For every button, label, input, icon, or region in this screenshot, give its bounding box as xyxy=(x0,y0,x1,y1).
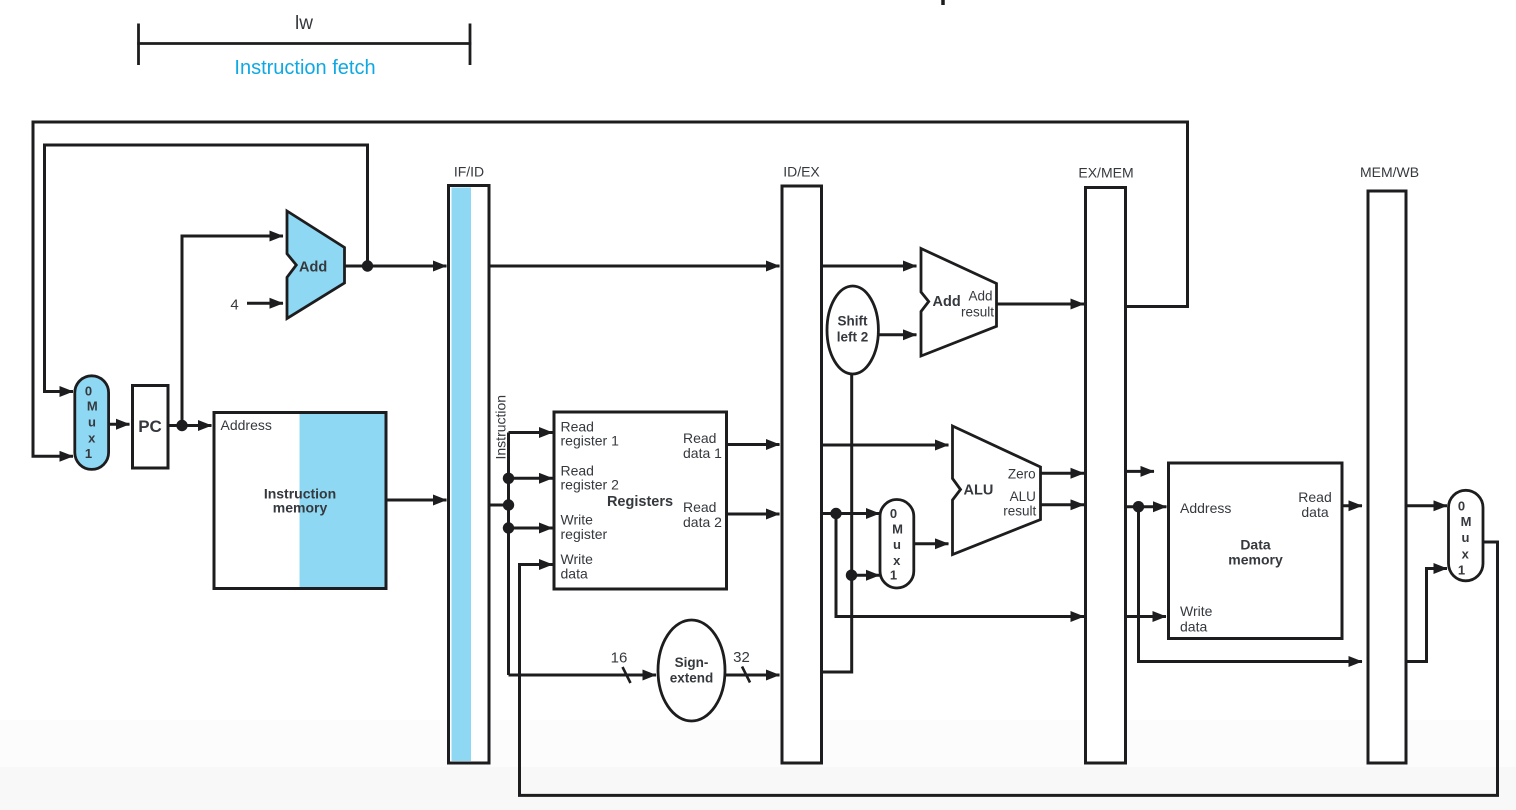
svg-text:x: x xyxy=(1462,547,1470,562)
svg-text:x: x xyxy=(88,431,96,446)
svg-text:1: 1 xyxy=(85,446,92,461)
svg-text:Add: Add xyxy=(968,289,992,304)
wire instruction to write register xyxy=(509,527,553,530)
svg-text:left 2: left 2 xyxy=(837,330,869,345)
svg-text:x: x xyxy=(893,553,901,568)
wire data memory read data to MEM/WB xyxy=(1342,504,1362,507)
svg-text:ID/EX: ID/EX xyxy=(783,164,820,180)
wire mux to PC xyxy=(109,423,130,426)
mux M3 labels xyxy=(1458,499,1472,578)
wire mux to ALU xyxy=(914,542,949,545)
svg-text:0: 0 xyxy=(890,506,897,521)
svg-text:Instruction: Instruction xyxy=(493,395,509,460)
svg-text:Read: Read xyxy=(683,499,716,515)
svg-text:Address: Address xyxy=(1180,500,1231,516)
wire read data 1 to ID/EX xyxy=(727,443,780,446)
register file Registers xyxy=(554,412,727,589)
wire IF/ID to ID/EX pc+4 xyxy=(489,265,780,268)
junction node instr-rr2 xyxy=(503,473,514,484)
wire read data 2 branch to EX/MEM write data xyxy=(836,514,1084,617)
svg-text:lw: lw xyxy=(295,13,313,34)
svg-text:result: result xyxy=(1003,504,1036,519)
svg-text:Add: Add xyxy=(299,260,327,276)
wire immediate branch to mux1 xyxy=(852,574,880,577)
svg-text:Address: Address xyxy=(221,417,272,433)
svg-text:memory: memory xyxy=(273,500,328,516)
svg-text:IF/ID: IF/ID xyxy=(454,164,484,180)
junction node pc+4 xyxy=(362,260,373,271)
wire EX/MEM write data to data memory xyxy=(1126,615,1167,618)
adder Add pc+4 xyxy=(287,211,345,319)
svg-text:data 2: data 2 xyxy=(683,514,722,530)
svg-text:memory: memory xyxy=(1228,552,1283,568)
svg-text:u: u xyxy=(88,415,96,430)
wire IF/ID instruction out xyxy=(489,504,509,507)
svg-text:Sign-: Sign- xyxy=(675,655,709,670)
wire instruction memory to IF/ID xyxy=(386,499,447,502)
wire shift left 2 to Add xyxy=(878,333,916,336)
junction node instr-wr xyxy=(503,522,514,533)
svg-text:data: data xyxy=(1301,504,1328,520)
wire ALU result bypass to MEM/WB xyxy=(1139,507,1363,662)
svg-text:u: u xyxy=(893,537,901,552)
svg-text:MEM/WB: MEM/WB xyxy=(1360,164,1419,180)
svg-text:result: result xyxy=(961,305,994,320)
mux M1 pc-source xyxy=(75,376,109,470)
mux M1 labels xyxy=(85,384,98,462)
wire ID/EX read data 1 to ALU xyxy=(822,444,949,447)
junction node pc-out xyxy=(176,420,187,431)
bus width slash 32 xyxy=(742,667,750,683)
mux M2 labels xyxy=(890,506,903,583)
wire PC to instruction memory address xyxy=(168,424,212,427)
wire ID/EX immediate up to shift left 2 xyxy=(822,374,852,672)
svg-text:PC: PC xyxy=(138,417,162,436)
mux M2 alu-src xyxy=(880,500,914,589)
wire Add result to EX/MEM xyxy=(997,303,1085,306)
junction node read-data-2 xyxy=(830,508,841,519)
alu ALU xyxy=(953,426,1041,555)
pipeline register ID/EX xyxy=(782,186,822,763)
mux M3 mem-to-reg xyxy=(1449,490,1484,581)
adder Add branch-target xyxy=(921,249,997,357)
register PC xyxy=(133,386,169,469)
wire ID/EX read data 2 to mux0 xyxy=(822,512,880,515)
svg-text:0: 0 xyxy=(85,384,92,399)
svg-text:data 1: data 1 xyxy=(683,445,722,461)
svg-text:EX/MEM: EX/MEM xyxy=(1078,165,1133,181)
svg-text:register 1: register 1 xyxy=(561,433,620,449)
svg-text:Zero: Zero xyxy=(1008,466,1036,481)
stage bracket lw xyxy=(137,24,471,66)
svg-text:u: u xyxy=(1462,530,1470,545)
svg-text:extend: extend xyxy=(670,671,714,686)
svg-text:1: 1 xyxy=(890,568,897,583)
wire pc+4 feedback to mux0 (inner loop) xyxy=(45,145,368,392)
wire instruction to sign-extend xyxy=(509,674,657,677)
pipeline register EX/MEM xyxy=(1086,188,1126,764)
svg-text:Read: Read xyxy=(1298,489,1331,505)
wire write-back loop to registers write data xyxy=(520,542,1498,795)
wire read data 2 to ID/EX xyxy=(727,513,780,516)
unit Sign-extend xyxy=(658,620,725,721)
wire EX/MEM ALU result to data memory address xyxy=(1126,505,1167,508)
top edge tick xyxy=(941,0,945,5)
wire instruction to read register 2 xyxy=(509,477,553,480)
svg-text:Shift: Shift xyxy=(838,314,868,329)
svg-text:M: M xyxy=(892,522,903,537)
wire MEM/WB read data to mux0 xyxy=(1406,504,1447,507)
wire add-result feedback from EX/MEM to mux1 (outer loop) xyxy=(33,122,1188,456)
unit Shift-left-2 xyxy=(827,286,878,374)
wire EX/MEM zero stub xyxy=(1126,470,1155,473)
svg-text:Add: Add xyxy=(933,294,961,310)
svg-text:register 2: register 2 xyxy=(561,477,620,493)
junction node alu-result xyxy=(1133,501,1144,512)
svg-text:M: M xyxy=(87,399,98,414)
svg-text:Data: Data xyxy=(1240,537,1271,553)
svg-text:data: data xyxy=(1180,619,1207,635)
svg-text:Registers: Registers xyxy=(607,494,673,510)
svg-text:data: data xyxy=(561,566,588,582)
wire sign-extend to ID/EX xyxy=(726,674,780,677)
svg-text:ALU: ALU xyxy=(1010,489,1036,504)
svg-text:4: 4 xyxy=(230,297,238,314)
wire ALU result to EX/MEM xyxy=(1041,503,1085,506)
svg-text:Instruction fetch: Instruction fetch xyxy=(234,57,375,79)
svg-text:Read: Read xyxy=(683,430,716,446)
junction node instr-main xyxy=(503,499,514,510)
wire instruction vertical bus xyxy=(507,433,510,676)
svg-text:ALU: ALU xyxy=(964,483,994,499)
wire ID/EX pc+4 to Add xyxy=(822,265,917,268)
svg-text:32: 32 xyxy=(733,649,750,666)
svg-text:M: M xyxy=(1461,514,1472,529)
svg-text:16: 16 xyxy=(611,650,628,667)
memory data-memory xyxy=(1169,463,1343,639)
pipeline register IF/ID xyxy=(449,186,490,764)
svg-text:1: 1 xyxy=(1458,563,1465,578)
wire constant 4 to Add xyxy=(247,302,283,305)
wire ALU zero to EX/MEM xyxy=(1041,472,1085,475)
bus width slash 16 xyxy=(623,667,631,683)
pipeline register MEM/WB xyxy=(1368,191,1406,763)
junction node immediate xyxy=(846,570,857,581)
wire instruction to read register 1 xyxy=(509,431,553,434)
memory instruction-memory xyxy=(214,413,386,589)
svg-text:0: 0 xyxy=(1458,499,1465,514)
svg-text:register: register xyxy=(561,526,608,542)
wire Add output to IF/ID xyxy=(345,265,447,268)
wire PC branch up to Add xyxy=(182,236,283,426)
wire MEM/WB ALU result to mux1 xyxy=(1406,569,1447,662)
svg-text:Write: Write xyxy=(1180,603,1213,619)
